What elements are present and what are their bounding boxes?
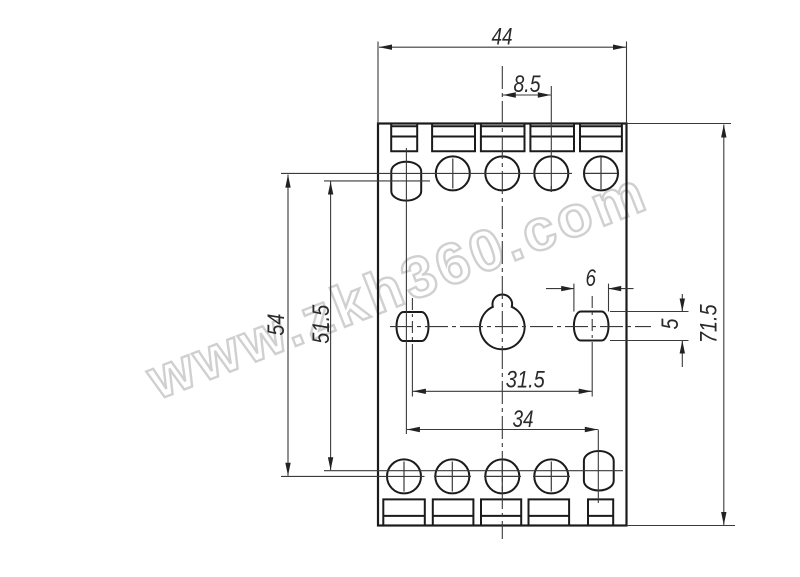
top screw C2 bbox=[436, 156, 470, 190]
dim 8.5 extension line bbox=[550, 86, 552, 192]
centerline left hole bbox=[411, 298, 413, 344]
bottom screw C1 bbox=[387, 459, 421, 493]
dim 31.5 extension lines bbox=[412, 344, 592, 397]
dim 71.5 extension lines bbox=[627, 124, 736, 526]
bottom screw slot S5 (obround) bbox=[584, 451, 614, 491]
bottom terminal B3 bbox=[481, 499, 521, 525]
body outline bbox=[378, 124, 627, 526]
dim 6 line segments bbox=[546, 288, 634, 290]
svg-text:54: 54 bbox=[263, 314, 290, 336]
top terminal T5 bbox=[580, 124, 622, 152]
dim 8.5 line bbox=[503, 94, 551, 96]
top screw slots (vertical bars) bbox=[453, 158, 618, 193]
dim 44 extension lines bbox=[378, 42, 627, 124]
top screw C5 bbox=[584, 156, 618, 190]
dim 54 extension lines bbox=[281, 173, 572, 476]
dim 6 extension lines bbox=[574, 284, 609, 312]
top terminal T2 bbox=[432, 124, 475, 152]
svg-text:6: 6 bbox=[586, 265, 597, 292]
keyhole (circle with top notch lug) bbox=[480, 294, 525, 349]
dim 34 extension lines bbox=[406, 148, 598, 503]
dim 51.5 extension lines bbox=[324, 181, 623, 471]
dim 71.5 line bbox=[723, 125, 725, 526]
bottom terminal B1 bbox=[383, 499, 425, 525]
top terminal T4 bbox=[530, 124, 574, 152]
svg-text:5: 5 bbox=[657, 318, 684, 330]
middle hole left (6x5) bbox=[397, 312, 429, 341]
svg-text:8.5: 8.5 bbox=[514, 71, 542, 98]
centerline horizontal (axis) bbox=[390, 326, 651, 328]
dim 54 line bbox=[287, 175, 289, 476]
bottom screw C4 bbox=[534, 459, 568, 493]
centerline vertical (axis) bbox=[501, 66, 503, 539]
dim 5 line segments bbox=[681, 294, 683, 367]
dim 51.5 line bbox=[330, 182, 332, 471]
top screw C4 bbox=[534, 156, 568, 190]
bottom terminal B5 bbox=[588, 499, 613, 525]
svg-text:44: 44 bbox=[492, 23, 513, 50]
svg-text:31.5: 31.5 bbox=[506, 367, 546, 394]
watermark www.zkh360.com bbox=[138, 160, 654, 412]
top terminal T1 bbox=[391, 124, 417, 152]
svg-text:51.5: 51.5 bbox=[308, 304, 335, 344]
top screw C3 bbox=[485, 156, 519, 190]
bottom terminal B4 bbox=[529, 499, 570, 525]
top terminal T3 bbox=[481, 124, 525, 152]
bottom screw C2 bbox=[435, 459, 469, 493]
svg-text:34: 34 bbox=[513, 406, 534, 433]
bottom screw slots (vertical bars) bbox=[404, 462, 570, 492]
centerline right hole bbox=[591, 296, 593, 344]
middle hole right (6x5) bbox=[574, 312, 609, 341]
dim 34 line bbox=[407, 429, 598, 431]
dim 5 extension lines bbox=[610, 312, 689, 341]
dim 31.5 line bbox=[413, 390, 592, 392]
top screw slot S1 (obround) bbox=[391, 162, 421, 201]
svg-text:71.5: 71.5 bbox=[696, 304, 723, 344]
bottom screw C3 bbox=[485, 459, 519, 493]
bottom terminal B2 bbox=[433, 499, 474, 525]
dim 44 line bbox=[379, 46, 626, 48]
